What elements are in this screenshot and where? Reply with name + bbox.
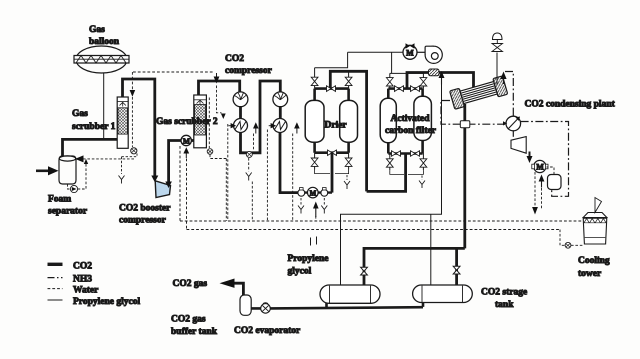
- svg-text:M: M: [406, 48, 414, 57]
- pump under foam separator: [68, 159, 89, 193]
- svg-text:M: M: [536, 163, 544, 172]
- filter top manifold (thick): [388, 87, 422, 90]
- feed arrow into foam separator: [36, 170, 49, 173]
- intercooler 2: [273, 119, 287, 133]
- drier bottom manifold (thick): [315, 151, 349, 154]
- wire condensate line down to tanks (thick): [463, 104, 466, 248]
- NH3 suction line from condenser top (dash-dot): [505, 72, 513, 116]
- main dashed water header lower: [187, 229, 561, 231]
- scrubber1 drain Y: [119, 176, 125, 184]
- svg-text:Gas: Gas: [89, 25, 105, 35]
- arrow up at condenser right end: [503, 78, 505, 84]
- svg-text:balloon: balloon: [89, 37, 120, 47]
- wire filter top pipe to condenser (thick): [407, 73, 474, 93]
- cooling tower: [583, 198, 607, 245]
- wire drier bottom center (thick): [331, 153, 334, 193]
- arrow up under M pump: [185, 153, 187, 158]
- cooling water circuit dashes at tower: [560, 230, 565, 246]
- svg-text:Drier: Drier: [325, 121, 348, 131]
- svg-text:tank: tank: [495, 300, 514, 310]
- NH3 compressor circle: [506, 116, 521, 131]
- wire product line from tanks to evaporator (thick): [327, 302, 424, 308]
- wire buffer tank outlet (thick): [234, 283, 243, 295]
- pump A at scrubber1 bottom: [131, 148, 137, 154]
- svg-text:CO2: CO2: [225, 54, 244, 64]
- NH3 receiver vessel: [548, 175, 562, 190]
- tank2 fill valve: [453, 266, 460, 274]
- NH3 sight box: [460, 121, 470, 128]
- gas scrubber 2: [194, 95, 207, 148]
- pump M at gas scrubber 2: [181, 135, 191, 145]
- dashed risers compressor area: [210, 155, 226, 159]
- arrow into booster: [151, 176, 158, 183]
- wire booster to M pump (thick): [169, 141, 182, 186]
- scrubber1 water dashes: [133, 71, 214, 73]
- drier outlet valve left (globe): [311, 158, 318, 166]
- svg-text:Propylene: Propylene: [288, 254, 329, 264]
- svg-text:glycol: glycol: [288, 267, 312, 277]
- svg-text:NH3: NH3: [73, 275, 92, 285]
- svg-text:CO2 gas: CO2 gas: [173, 279, 208, 289]
- svg-text:CO2: CO2: [73, 262, 92, 272]
- svg-text:tower: tower: [578, 269, 602, 279]
- bowtie valves on filter bottom manifold: [392, 151, 401, 156]
- drier inlet valve left (globe): [311, 77, 318, 85]
- thin regeneration manifold over filter: [390, 72, 424, 74]
- CO2 gas arrow: [220, 279, 235, 288]
- thin regeneration manifold over drier: [315, 52, 348, 67]
- filter right vessel: [414, 96, 432, 140]
- arrow up under NH3 pump: [541, 181, 543, 188]
- compressor fan 1: [233, 92, 248, 118]
- svg-text:carbon filter: carbon filter: [385, 126, 437, 136]
- svg-text:compressor: compressor: [225, 66, 273, 76]
- legend NH3: [48, 277, 63, 279]
- filter inlet valve left (globe): [386, 78, 393, 86]
- filter outlet valve right (globe): [420, 159, 427, 167]
- svg-text:Foam: Foam: [48, 195, 71, 205]
- filter outlet valve left (globe): [386, 159, 393, 167]
- foam separator: [59, 156, 76, 184]
- svg-text:Water: Water: [73, 286, 99, 296]
- wire foam separator riser (thick CO2): [63, 139, 118, 156]
- dashed water line into foam separator: [83, 158, 135, 160]
- svg-text:Cooling: Cooling: [578, 256, 610, 266]
- small circle at scrubber2 bottom: [207, 149, 213, 155]
- wire drier-to-filter bottom link (thick): [367, 154, 406, 192]
- drier drain Y: [346, 175, 348, 180]
- svg-text:Propylene glycol: Propylene glycol: [73, 297, 140, 307]
- drain Y right: [321, 206, 327, 214]
- wire balloon stem: [103, 73, 105, 139]
- drier outlet valve right (globe): [345, 158, 352, 166]
- svg-text:CO2 evaporator: CO2 evaporator: [234, 326, 301, 336]
- trap valve circle stage1: [246, 151, 252, 157]
- filter drain Y: [421, 176, 423, 180]
- bowtie valves on filter top manifold: [395, 86, 404, 92]
- CO2 booster compressor (blue): [155, 181, 170, 198]
- arrow down to NH3 pump: [529, 152, 531, 157]
- regeneration line to blower: [348, 51, 403, 53]
- NH3 pump M: [534, 160, 546, 172]
- cooling arrows at intercoolers: [229, 125, 235, 127]
- svg-text:scrubber 1: scrubber 1: [72, 122, 116, 132]
- filter left vessel: [380, 98, 396, 143]
- CO2 storage tank 2: [413, 285, 473, 303]
- wire water line filter to storage tanks (thin): [341, 85, 442, 286]
- main dashed water header upper: [180, 220, 583, 222]
- NH3 line condenser to compressor (dash-dot): [441, 101, 506, 125]
- intercooler 1: [234, 119, 248, 133]
- svg-text:CO2 strage: CO2 strage: [481, 288, 527, 298]
- valve bowtie on drier bottom manifold: [328, 150, 337, 155]
- svg-text:Activated: Activated: [391, 114, 431, 124]
- drier right vessel: [340, 100, 358, 142]
- filter bottom manifold (thick): [388, 152, 422, 155]
- svg-text:CO2 booster: CO2 booster: [119, 204, 171, 214]
- compressor fan 2: [273, 92, 288, 119]
- svg-text:M: M: [183, 136, 190, 145]
- wire scrubber2 top pipe (thick): [199, 81, 240, 95]
- wire drier bypass pipe (thick): [330, 71, 366, 191]
- CO2 evaporator: [261, 304, 271, 314]
- svg-text:buffer tank: buffer tank: [171, 327, 218, 337]
- svg-text:Gas: Gas: [72, 109, 88, 119]
- svg-text:compressor: compressor: [119, 216, 167, 226]
- svg-text:Gas scrubber 2: Gas scrubber 2: [156, 117, 218, 127]
- propylene glycol line marks: [311, 237, 317, 246]
- CO2 condenser (shell and tube, tilted): [450, 76, 508, 109]
- arrow up under drier M pump: [315, 208, 317, 217]
- expansion horn: [511, 137, 526, 154]
- drain dashes under drier pumps: [300, 198, 302, 205]
- dashed riser left pair: [179, 146, 181, 221]
- drier left vessel: [305, 100, 324, 142]
- svg-text:CO2 condensing plant: CO2 condensing plant: [525, 100, 616, 110]
- regeneration heater motor M: [403, 45, 417, 59]
- drier top manifold (thick): [315, 87, 349, 90]
- regeneration blower: [417, 46, 442, 63]
- wire tank fill header (thick): [364, 248, 465, 285]
- tank1 fill valve: [361, 267, 368, 275]
- wire stage2 to drier pumps (thick): [280, 133, 298, 193]
- valve bowtie on drier top manifold: [327, 86, 336, 92]
- cooling tower pump: [565, 242, 571, 248]
- gas scrubber 1: [117, 97, 128, 148]
- drier pumps assembly: [298, 187, 332, 198]
- CO2 storage tank 1: [320, 285, 380, 303]
- gas balloon: [74, 46, 129, 73]
- inline heater (hatched): [429, 69, 440, 76]
- legend CO2: [48, 263, 63, 266]
- wire scrubber1 top pipe over (thick): [123, 79, 155, 177]
- drain Y left: [298, 206, 304, 214]
- filter inlet valve right (globe): [420, 78, 427, 86]
- svg-text:separator: separator: [48, 207, 88, 217]
- legend Water: [48, 288, 63, 290]
- svg-text:CO2 gas: CO2 gas: [171, 315, 206, 325]
- wire stage1 bottom (thick): [241, 81, 281, 153]
- svg-text:M: M: [310, 189, 317, 197]
- drier inlet valve right (globe): [345, 77, 352, 85]
- legend Propylene glycol: [48, 299, 63, 301]
- safety valve on condenser: [496, 53, 498, 86]
- CO2 gas buffer tank: [240, 295, 251, 315]
- cooling water dashes at NH3 pump: [534, 172, 536, 207]
- NH3 discharge loop (dash-dot): [521, 122, 569, 197]
